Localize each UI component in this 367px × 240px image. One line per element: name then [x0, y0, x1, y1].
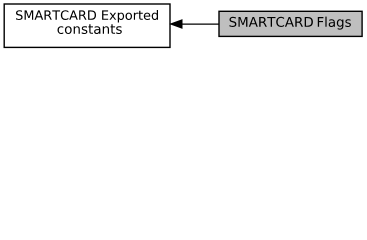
- label text line 2: constants: [58, 24, 122, 34]
- arrowhead pointing left into SMARTCARD Exported constants box: [170, 20, 182, 29]
- label text line 1: SMARTCARD Exported: [16, 10, 158, 23]
- label text: SMARTCARD (of SMARTCARD Flags): [230, 17, 313, 27]
- node box: SMARTCARD Flags (grey, current group): [219, 11, 362, 36]
- label text: Flags (of SMARTCARD Flags): [318, 17, 351, 30]
- node box: SMARTCARD Exported constants: [4, 4, 170, 47]
- wire: edge from SMARTCARD Flags box to SMARTCARD Exported constants box: [182, 23, 220, 25]
